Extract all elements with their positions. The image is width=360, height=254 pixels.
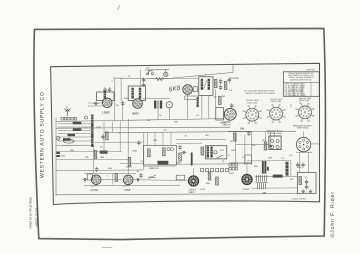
dial lamp <box>164 72 168 76</box>
wire vert det <box>215 90 217 108</box>
IF can T3 <box>128 86 145 101</box>
wire osc rows <box>58 124 92 145</box>
resistor in vol box b <box>163 148 166 156</box>
svg-text:100V 3V: 100V 3V <box>123 185 130 188</box>
svg-text:ℒC457: ℒC457 <box>242 188 250 191</box>
resistor left of trans <box>201 147 204 155</box>
tube V1 6D8G <box>102 98 112 108</box>
svg-text:6 VOLT SUPPLY: 6 VOLT SUPPLY <box>292 198 308 201</box>
socket view 6D8G <box>243 105 262 123</box>
can T3 winding b <box>139 88 141 99</box>
cap avc <box>228 77 231 82</box>
filter cap small <box>267 167 269 171</box>
wire lower bus D <box>56 169 143 172</box>
cathode box under V3 <box>185 96 199 100</box>
cap above T5 <box>95 167 98 172</box>
wire det row 1 <box>56 150 122 152</box>
svg-text:WESTERN AUTO SUPPLY CO: WESTERN AUTO SUPPLY CO <box>40 91 46 178</box>
svg-text:OUT: OUT <box>220 149 225 152</box>
resistor stack b <box>179 153 182 161</box>
svg-text:DIAGRAM ARE PART No.: DIAGRAM ARE PART No. <box>290 78 312 81</box>
switch S1 on bus <box>147 70 154 75</box>
wire vert right b <box>244 135 246 165</box>
wire left vertical <box>55 118 57 196</box>
resistor below trans b <box>216 177 219 185</box>
wire vert ps b <box>307 153 309 173</box>
resistor in vol box a <box>148 149 151 157</box>
svg-text:1MEG: 1MEG <box>126 165 132 168</box>
wire speaker drop 1 <box>274 132 276 138</box>
vol label dark <box>158 161 169 165</box>
wire vert det 2 <box>103 122 105 152</box>
band switch grid <box>229 164 238 171</box>
volume control box <box>144 145 177 165</box>
pot dark V8 <box>242 174 252 184</box>
svg-text:SW2: SW2 <box>229 172 235 175</box>
resistor zigzag b <box>106 132 109 140</box>
audio transformer T2 <box>154 101 162 109</box>
wire top B+ bus <box>113 65 233 79</box>
svg-text:GND: GND <box>61 155 66 158</box>
cap between V5 V6 <box>115 174 118 182</box>
svg-text:BLK: BLK <box>252 144 257 147</box>
speaker terminal strip <box>201 169 229 172</box>
resistor T4 row <box>234 133 237 141</box>
svg-text:10M: 10M <box>153 139 157 142</box>
resistor R det <box>214 80 217 88</box>
wire vol drop 3 <box>162 133 164 146</box>
choke winding <box>286 162 289 176</box>
svg-text:1M: 1M <box>214 96 217 99</box>
svg-text:6K8 TUBE: 6K8 TUBE <box>301 99 310 102</box>
tick marks above bus <box>145 70 169 73</box>
lamp circle mid <box>166 102 172 108</box>
wire audio row 1 <box>176 138 226 140</box>
wire horiz speaker <box>236 144 269 146</box>
cap filter b <box>269 143 272 148</box>
wire horiz T4 row <box>228 130 252 132</box>
cap in power box <box>305 179 308 184</box>
tone switch <box>150 175 156 178</box>
output trans arrow <box>217 155 223 158</box>
cap left of T1 <box>93 102 98 105</box>
ground in power box b <box>309 190 313 193</box>
small box under T4 <box>245 155 252 163</box>
component e <box>137 140 140 145</box>
cap pair det <box>219 79 222 84</box>
wire socket drop link <box>296 151 312 153</box>
small box tone <box>176 175 184 180</box>
wire T3 can lead <box>139 70 141 86</box>
tube V2 6B8G <box>133 99 143 109</box>
wire vol feed vert <box>143 133 145 171</box>
cap before power box a <box>296 162 299 167</box>
cap right of V6 <box>135 178 140 181</box>
wire vol drop 4 <box>170 133 172 146</box>
svg-text:25M: 25M <box>70 149 74 152</box>
resistor vert d <box>128 158 131 166</box>
wire det row 4 <box>120 163 144 165</box>
wire T2 cathode row <box>143 98 170 100</box>
output trans winding b <box>210 147 212 158</box>
wire vert T2 plate <box>187 95 189 120</box>
trimmer caps above T1 <box>103 87 106 92</box>
svg-text:PAGE 14-10 TRUETONE: PAGE 14-10 TRUETONE <box>28 197 32 229</box>
speaker socket circle <box>296 137 310 151</box>
svg-text:ℒD8G: ℒD8G <box>102 111 111 115</box>
output transformer box <box>205 146 227 159</box>
resistor on bus <box>156 77 164 80</box>
left edge contact marks <box>57 152 60 154</box>
wire horiz bottom left <box>56 144 95 146</box>
cap stack a <box>178 145 181 150</box>
wire under comb <box>252 187 298 189</box>
svg-text:ℓ458: ℓ458 <box>124 188 130 192</box>
socket view 6B8G <box>267 104 286 122</box>
can T3 winding a <box>131 88 133 99</box>
stray mark <box>118 5 121 10</box>
wire vert V4 <box>120 78 122 101</box>
wire T1 left row2 <box>88 105 102 107</box>
can3 winding <box>197 97 199 107</box>
wire vert ps a <box>299 153 301 173</box>
wire vol drop 2 <box>154 133 156 146</box>
wire audio drop b <box>168 108 170 119</box>
schematic scan wash <box>51 63 320 204</box>
band switch contact row <box>61 117 77 120</box>
svg-text:ℒK℉G: ℒK℉G <box>223 121 231 124</box>
IF can T1 winding <box>104 91 106 102</box>
circles in vol box <box>167 147 170 150</box>
cap T4 row <box>247 131 250 136</box>
wire tube row top <box>84 172 136 174</box>
cap left of V5 <box>82 178 87 181</box>
cap between T1 T3 <box>121 101 124 106</box>
svg-text:8MF: 8MF <box>254 165 259 168</box>
wire vert right a <box>251 131 253 165</box>
wire ps link <box>230 162 245 164</box>
svg-text:GRN: GRN <box>231 149 236 152</box>
wire grid return <box>148 77 198 79</box>
wire vert table drop <box>299 98 301 104</box>
wire filter top row <box>247 160 291 162</box>
wire vert V5 <box>122 101 124 121</box>
svg-text:VIB: VIB <box>263 192 267 195</box>
wire T6 T7 link <box>132 179 188 182</box>
tube V3 6K8 converter <box>183 85 193 95</box>
resistor R osc 4 <box>63 138 71 140</box>
IF can T1 <box>97 92 115 101</box>
antenna <box>65 109 71 117</box>
osc coil winding <box>91 115 93 126</box>
wire T5 T6 link <box>101 179 122 181</box>
wire plate supply row <box>176 163 252 165</box>
wire vert to T6 <box>127 119 129 174</box>
pot shaft bar <box>191 153 193 166</box>
filter cap C bank a <box>262 161 264 174</box>
resistor blob c <box>100 151 108 154</box>
ground in power box a <box>301 190 305 193</box>
tuning cap trimmer <box>85 116 88 119</box>
wire det row 3 <box>95 141 144 143</box>
svg-text:+B 250V: +B 250V <box>230 77 240 80</box>
resistor in power box <box>299 177 302 185</box>
socket view 6K8 <box>295 103 314 121</box>
svg-text:8MF: 8MF <box>269 157 274 160</box>
wire vert V3 <box>114 78 116 121</box>
resistor R osc 2 <box>73 128 82 131</box>
can2 winding b <box>208 79 210 90</box>
wire bottom bus E <box>56 194 297 195</box>
svg-text:SOCKET CONTACTS TO CHASSIS: SOCKET CONTACTS TO CHASSIS <box>246 92 276 95</box>
wire audio drop a <box>157 109 159 120</box>
component value labels <box>70 80 302 181</box>
svg-text:.5MF: .5MF <box>297 166 302 169</box>
resistor above T4 <box>219 97 222 105</box>
cap cluster a <box>101 134 104 139</box>
svg-text:MODEL D1723: MODEL D1723 <box>35 207 39 226</box>
stray mark bottom <box>102 247 112 249</box>
wire vert can2 a <box>201 96 203 119</box>
wire vert right c <box>235 131 237 163</box>
wire mid bus C <box>104 131 296 132</box>
phono jack <box>56 137 60 141</box>
wire socket to border <box>311 143 320 145</box>
wire can2 stub <box>205 74 207 77</box>
wire horiz ps row <box>255 176 297 178</box>
wire left of V6 <box>112 173 114 184</box>
schematic border box <box>51 63 320 204</box>
svg-text:ℓB8G: ℓB8G <box>132 111 140 115</box>
page border frame <box>34 28 326 239</box>
wire speaker drop 2 <box>303 131 305 137</box>
choke to V5 <box>94 151 97 159</box>
svg-text:6B8G TUBE: 6B8G TUBE <box>271 100 282 103</box>
tube V5 6D6 IF <box>91 175 101 185</box>
svg-text:PART No.: PART No. <box>307 68 316 71</box>
output trans winding a <box>207 147 209 158</box>
svg-text:50M: 50M <box>174 121 178 124</box>
svg-text:(TOP VIEW): (TOP VIEW) <box>297 127 309 130</box>
can V5 <box>87 174 92 180</box>
IF can 3 465KC <box>216 108 224 121</box>
wire vert mid left <box>119 121 121 151</box>
wire vol bottom row <box>143 165 176 167</box>
wire vol drop 1 <box>147 133 149 146</box>
svg-text:6D8G TUBE: 6D8G TUBE <box>247 101 258 104</box>
speaker plug square <box>269 136 281 150</box>
svg-text:A: A <box>66 106 68 109</box>
svg-text:500M VOL: 500M VOL <box>149 167 160 170</box>
resistor filter a <box>264 142 267 150</box>
wire vert filter a <box>265 132 267 143</box>
wire mid bus A <box>56 119 224 122</box>
cap above T4 <box>230 103 233 108</box>
resistor R osc 3 <box>68 134 76 136</box>
svg-text:50M: 50M <box>108 167 112 170</box>
tube V6 6C6 <box>123 175 133 185</box>
svg-text:4.2Ω: 4.2Ω <box>200 188 205 191</box>
wire bottom bus F <box>84 184 180 187</box>
wire vert det 3 <box>111 121 113 132</box>
svg-text:100V 0V: 100V 0V <box>91 185 98 188</box>
vibrator comb <box>256 175 269 189</box>
parts list table <box>283 72 319 97</box>
IF transformer can 2 <box>199 77 213 96</box>
tube V4 6K6G output <box>224 108 236 120</box>
wire audio row 2 <box>176 142 202 144</box>
wire T1 left row1 <box>88 102 102 104</box>
filter cap C bank b <box>264 161 266 174</box>
svg-text:RED: RED <box>262 139 267 142</box>
svg-text:25M: 25M <box>100 156 104 159</box>
grid cap box <box>193 87 197 92</box>
output trans circle <box>214 151 217 154</box>
pot dark V7 <box>188 176 198 186</box>
resistor below trans a <box>208 172 211 180</box>
cap before power box b <box>301 162 304 167</box>
cap left bottom <box>139 173 142 178</box>
wire right column a <box>290 104 292 107</box>
resistor R avc <box>224 82 227 90</box>
svg-text:©John F. Rider: ©John F. Rider <box>330 191 336 237</box>
cap to ground on bus <box>142 77 145 82</box>
resistor R osc 1 <box>73 122 82 125</box>
svg-text:2MEG: 2MEG <box>189 191 195 194</box>
wire T8 drop <box>246 162 248 174</box>
wire vert can2 b <box>208 96 210 119</box>
loop coil <box>64 139 74 143</box>
wire vert ps c <box>290 161 292 176</box>
wire vert filter b <box>270 132 272 143</box>
svg-text:2M: 2M <box>164 129 167 132</box>
resistor power horiz <box>273 175 283 178</box>
svg-text:250V 7A: 250V 7A <box>223 123 232 126</box>
wire T7 drop <box>193 168 195 176</box>
svg-text:.0002: .0002 <box>132 150 138 153</box>
can2 winding a <box>201 79 203 90</box>
power unit box <box>297 173 316 194</box>
wire det row 2 <box>56 159 130 161</box>
svg-text:C6 .006-600V R6 2 MEG: C6 .006-600V R6 2 MEG <box>285 94 307 97</box>
svg-text:ℒD59: ℒD59 <box>90 188 98 192</box>
wire mid bus B <box>56 127 230 128</box>
svg-text:.0001: .0001 <box>124 97 130 100</box>
can2 arrow <box>204 80 208 89</box>
wire vert to T5 <box>93 146 95 174</box>
